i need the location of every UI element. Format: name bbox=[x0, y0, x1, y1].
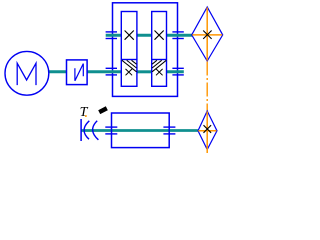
motor letter M bbox=[17, 63, 36, 85]
bearing right wall bottom unit bbox=[163, 127, 175, 134]
bearing top-right wall bbox=[172, 32, 183, 39]
wire: driven shaft bottom bbox=[81, 129, 198, 132]
bevel gear pair top diamond bbox=[192, 7, 223, 61]
gear block left divider bbox=[121, 59, 137, 61]
wire: input shaft motor to gearbox bbox=[49, 70, 121, 73]
x mark gear lower left bbox=[126, 69, 133, 75]
hatch right gear lower cell bbox=[152, 60, 166, 72]
drum arc 1 bbox=[84, 121, 89, 139]
X mark gear upper left bbox=[125, 31, 134, 40]
bevel gear pair bottom diamond bbox=[198, 111, 217, 150]
coupling box bbox=[67, 60, 88, 85]
gear block right (white over shafts) bbox=[152, 12, 167, 87]
bearing bottom-right wall bbox=[172, 68, 183, 75]
motor M1 circle bbox=[5, 51, 49, 95]
driven unit housing rect bbox=[112, 113, 170, 148]
shaft end bar of drum symbol bbox=[80, 119, 82, 141]
wire: upper output shaft of gearbox bbox=[106, 34, 193, 37]
X mark gear upper right bbox=[155, 31, 164, 40]
svg-text:T: T bbox=[80, 105, 89, 120]
wire: lower shaft right stub through housing wall bbox=[167, 70, 184, 73]
orange dash-dot centerline between bevel gears bbox=[206, 62, 208, 112]
x mark gear lower right bbox=[156, 69, 163, 75]
bearing top-left wall bbox=[106, 32, 117, 39]
coupling zigzag bbox=[75, 64, 83, 81]
gear block left (white over shafts) bbox=[121, 12, 137, 87]
orange centerline cross in top diamond bbox=[192, 8, 222, 61]
drum arc 2 bbox=[93, 121, 99, 140]
X mark in top diamond bbox=[203, 31, 211, 39]
orange centerline cross in bottom diamond bbox=[198, 112, 216, 154]
X mark in bottom diamond bbox=[204, 125, 212, 133]
gear block right divider bbox=[152, 59, 167, 61]
gearbox housing bbox=[113, 3, 178, 97]
wire: intermediate shaft segment between gear blocks (lower) bbox=[137, 70, 152, 73]
torque arrow black bbox=[98, 106, 108, 114]
bearing left wall bottom unit bbox=[105, 127, 117, 134]
stray orange dot bbox=[85, 115, 87, 117]
bearing bottom-left wall bbox=[106, 68, 117, 75]
hatch left gear lower cell bbox=[122, 60, 137, 72]
